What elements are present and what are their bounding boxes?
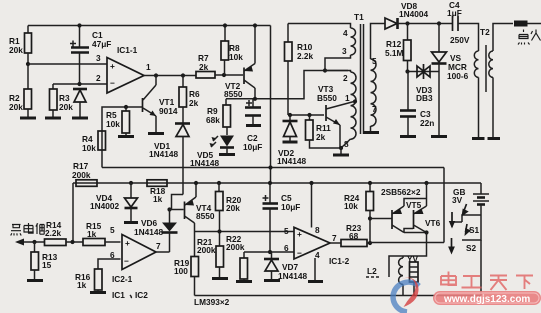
svg-text:3V: 3V [452,195,463,205]
wire collectors down to valve [389,233,427,278]
resistor R10 [285,24,314,116]
node R24 rail [368,181,372,185]
node R11 [307,113,311,117]
resistor R15 [83,221,121,246]
diac VD3 DB3 [416,64,433,103]
capacitor C4 1uF 250V [447,0,474,45]
svg-text:VT6: VT6 [425,218,441,228]
wire right riser to switch block [443,168,445,243]
logo swoosh [393,278,419,312]
svg-text:5: 5 [110,225,115,235]
svg-text:2: 2 [343,73,348,83]
svg-text:7: 7 [156,241,161,251]
T2 secondary [489,24,513,139]
transistor VT2 8550 [224,26,255,100]
op-amp IC1-1 [96,45,151,93]
node VT5/VT6 emitters rail [424,181,428,185]
svg-text:1μF: 1μF [447,8,462,18]
ground under T1 secondary [363,131,379,134]
svg-text:100-6: 100-6 [447,71,469,81]
svg-text:9014: 9014 [159,106,178,116]
svg-text:10k: 10k [82,143,96,153]
node R12 top [405,21,409,25]
resistor R21 [197,232,224,279]
svg-text:8: 8 [315,225,320,235]
thyristor VS MCR100-6 [432,24,469,137]
svg-text:7: 7 [332,233,337,243]
ground under diode [72,117,88,120]
svg-text:2.2k: 2.2k [45,228,62,238]
svg-text:3: 3 [96,53,101,63]
ground under VT3 [333,148,349,155]
resistor R14 [45,220,84,246]
wire pin3 input [28,63,107,65]
wire VT5 base [370,218,392,220]
wire IC1-2 pin4 ground [308,258,323,282]
T1 secondary winding 5-7 [371,24,386,133]
node collectors [424,230,428,234]
capacitor C3 22n [400,72,434,137]
svg-text:T1: T1 [354,12,364,22]
svg-text:200k: 200k [197,245,216,255]
svg-text:10μF: 10μF [281,202,300,212]
T1 core [361,24,364,134]
svg-text:22n: 22n [420,118,434,128]
transistor VT3 B550 [317,84,354,148]
ground under R13 [27,279,43,282]
svg-text:47μF: 47μF [92,39,111,49]
resistor R18 [147,180,167,204]
svg-text:7: 7 [372,104,377,114]
svg-text:IC1-2: IC1-2 [329,256,350,266]
svg-text:2k: 2k [316,132,326,142]
T1 winding 2-1-8 [341,72,356,149]
diode VD4 1N4002 [90,183,138,222]
wire R23 node to switch riser [370,242,444,244]
resistor R13 [31,242,58,280]
svg-text:250V: 250V [450,35,470,45]
node VT2 collector [253,97,257,101]
diode VD7 1N4148 [264,252,307,281]
svg-text:2.2k: 2.2k [297,51,314,61]
svg-text:VT5: VT5 [406,200,422,210]
svg-text:−: − [124,256,129,266]
svg-text:LM393×2: LM393×2 [194,297,230,307]
resistor R4 [82,131,106,153]
svg-text:10μF: 10μF [243,142,262,152]
wire emitters to rail [426,183,428,199]
svg-text:1N4148: 1N4148 [149,149,178,159]
wire op-amp1 output [144,75,196,77]
diode VD1 1N4148 [149,124,190,195]
svg-text:5: 5 [284,226,289,236]
wire lower rail [73,182,481,184]
wire pin2 link [325,71,351,73]
svg-text:6: 6 [284,243,289,253]
node VD4 [129,181,133,185]
battery GB 3V [452,183,489,215]
ground under R3 [45,117,61,120]
node C5 lower rail [268,181,272,185]
svg-text:8550: 8550 [224,89,243,99]
svg-text:1N4002: 1N4002 [90,201,119,211]
ground under C2 [246,124,261,127]
node mid rail / C5 riser [268,165,272,169]
wire pin2 input [53,83,107,85]
node VT2 emitter rail [253,23,257,27]
ground under T2 primary [472,137,485,140]
node R12/C3/diac [405,69,409,73]
svg-text:IC2-1: IC2-1 [112,274,133,284]
wire VT5 base riser [369,219,371,244]
ground under R5 [118,135,134,138]
svg-text:20k: 20k [59,102,73,112]
node R24/VT5 base [368,216,372,220]
resistor R9 [206,99,231,135]
svg-text:2: 2 [96,73,101,83]
wire IC2-1 pin6 [98,259,121,269]
op-amp IC2-1 [110,225,161,300]
ground under VD4 [124,221,138,224]
T2 core [485,45,487,92]
resistor R24 [344,183,374,219]
svg-text:2k: 2k [189,98,199,108]
node C5 / VD7 [268,250,272,254]
svg-text:3: 3 [342,46,347,56]
svg-text:1k: 1k [153,194,163,204]
svg-text:20k: 20k [9,102,23,112]
node VS top [437,21,441,25]
node T1 tap [323,68,327,72]
wire bottom return [195,295,482,297]
ground under VD7 [264,279,280,282]
thermocouple arrow 热电偶 [11,223,45,246]
svg-text:4: 4 [343,28,348,38]
node VT4 emitter rail [194,181,198,185]
svg-text:100: 100 [174,266,188,276]
wire switch to bottom [480,240,482,296]
node T1 pin1 tap [353,99,357,103]
capacitor C1 47uF [70,26,111,85]
LED VD5 1N4148 [190,136,234,169]
ground under VS [431,135,447,138]
resistor R20 [216,183,242,232]
svg-text:5: 5 [372,56,377,66]
wire VD1 to VT4 base jog [172,195,184,210]
svg-text:5.1M: 5.1M [385,48,404,58]
svg-text:B550: B550 [317,93,337,103]
transistor VT4 8550 [185,183,215,232]
resistor R19 [174,232,199,296]
svg-text:8550: 8550 [196,211,215,221]
wire mid rail from R4 [102,167,444,169]
resistor R12 [385,24,411,72]
node R20 rail [217,181,221,185]
wire IC2-1 output [156,251,170,253]
resistor R7 [196,53,243,78]
svg-text:DB3: DB3 [416,93,433,103]
svg-text:YV: YV [407,254,419,264]
ground under T2 secondary [488,137,501,140]
resistor R5 [106,107,130,136]
resistor R2 [9,64,32,118]
svg-text:1k: 1k [77,280,87,290]
svg-text:2SB562×2: 2SB562×2 [381,187,421,197]
switch S1 [449,204,481,240]
capacitor C5 10uF [263,183,301,252]
node output/VT1 [154,73,158,77]
ground under VT1 [148,132,164,135]
svg-text:−: − [110,78,115,88]
resistor R8 [221,26,243,76]
svg-text:20k: 20k [226,203,240,213]
wire rail right end drop to lower rail [270,26,272,184]
svg-text:20k: 20k [9,45,23,55]
wire VT4 base [170,209,184,211]
ground under R16 [90,291,106,294]
node VT3 emitter / pin8 / R11 [339,146,343,150]
svg-text:IC1-1: IC1-1 [117,45,138,55]
resistor R1 [9,26,32,65]
svg-text:10k: 10k [106,119,120,129]
diode VD2 1N4148 [277,115,306,166]
svg-text:1N4148: 1N4148 [190,158,219,168]
resistor R6 [179,76,200,124]
wire comparator pin6 net [244,251,294,253]
svg-text:1: 1 [146,62,151,72]
node R8 top rail [223,23,227,27]
node R1/R2 junction [26,62,30,66]
svg-text:−: − [297,248,302,258]
svg-text:www.dgjs123.com: www.dgjs123.com [443,294,530,305]
svg-text:+: + [125,238,130,248]
svg-text:68: 68 [349,231,359,241]
node R23 output [368,241,372,245]
svg-text:1N4004: 1N4004 [399,9,428,19]
label L2 [366,266,379,277]
node R14/R17/R15 [70,240,74,244]
node pin8 rail [309,181,313,185]
svg-text:10k: 10k [229,52,243,62]
svg-text:T2: T2 [480,27,490,37]
node C1 / zener / pin2 [77,82,81,86]
resistor R17 [72,161,97,242]
svg-text:1N4148: 1N4148 [277,156,306,166]
svg-text:68k: 68k [206,115,220,125]
node C1 top rail [77,23,81,27]
node output/R6 [181,73,185,77]
resistor R11 [306,115,342,148]
capacitor C2 10uF [243,99,262,152]
transistor VT1 9014 [143,76,178,134]
ground under R2 [20,117,36,120]
wire gate run [408,71,440,73]
svg-text:2k: 2k [199,62,209,72]
diode at pin2 node [73,89,87,118]
svg-text:1k: 1k [87,229,97,239]
T1 winding 4-3 [325,28,356,71]
svg-text:10k: 10k [344,201,358,211]
node R7/R8/VT2 base [222,73,226,77]
watermark 电工天下 [441,272,533,291]
transistor VT5 [392,199,427,233]
ground under VD2 [283,141,298,144]
svg-text:S1: S1 [469,225,480,235]
node R20/R21 [217,229,221,233]
transistor VT6 [404,199,441,233]
node R14/R13 [32,240,36,244]
T2 primary [474,24,479,139]
resistor R16 [75,269,102,292]
ground under VD5 [219,153,235,156]
spark plug output 点火 [514,21,541,45]
wire VT2 collector run [226,71,348,99]
svg-text:L2: L2 [367,266,377,276]
node R5 top [124,105,128,109]
svg-text:200k: 200k [226,242,245,252]
svg-text:S2: S2 [466,243,477,253]
svg-text:200k: 200k [72,170,91,180]
wire VT1 base net [102,107,143,168]
svg-text:+: + [297,229,302,239]
ground under R21 [212,277,228,280]
op-amp IC1-2 [284,225,350,266]
watermark banner www.dgjs123.com [433,291,541,305]
wire R10 bottom to VT3 base [288,114,324,116]
node VT4 base [167,207,171,211]
wire IC1-2 output [330,242,341,244]
resistor R22 [226,234,248,281]
wire T1 primary top loop [288,24,351,29]
diode VD8 1N4004 [385,1,452,29]
svg-text:1N4148: 1N4148 [134,227,163,237]
svg-text:+: + [110,61,115,71]
svg-text:IC1: IC1 [112,290,125,300]
svg-text:1: 1 [345,93,350,103]
ground under C3 [400,135,416,138]
wire comparator pin5 net [195,231,295,233]
switch S2 [448,238,476,255]
resistor R23 [341,223,370,247]
wire top supply rail [28,25,271,27]
wire IC1-2 pin8 [311,183,313,228]
resistor R3 [50,84,74,118]
diode VD6 1N4148 [134,210,178,253]
solenoid YV [399,254,419,296]
svg-text:15: 15 [42,260,52,270]
svg-text:IC2: IC2 [135,290,148,300]
svg-text:1N4148: 1N4148 [278,271,307,281]
ground under R22 [236,280,252,283]
node VD2 [288,113,292,117]
